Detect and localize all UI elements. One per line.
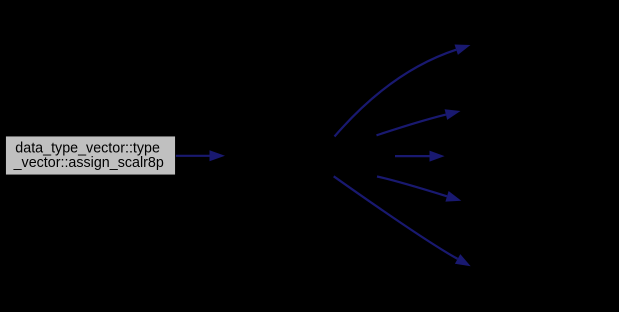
svg-text:_vector::assign_scalr8p: _vector::assign_scalr8p xyxy=(13,155,164,171)
edge: box to central node xyxy=(176,150,225,161)
edge: central node to fourth right node xyxy=(377,177,461,202)
edge: central node to second right node xyxy=(377,109,461,135)
node box: data_type_vector::type_vector::assign_scalr8p xyxy=(5,136,175,175)
svg-text:data_type_vector::type: data_type_vector::type xyxy=(15,140,160,156)
edge: central node to middle right node (horizontal) xyxy=(395,151,445,162)
edge: central node to top-right node (curved) xyxy=(335,45,471,137)
edge: central node to bottom right node (long diagonal) xyxy=(334,176,471,266)
